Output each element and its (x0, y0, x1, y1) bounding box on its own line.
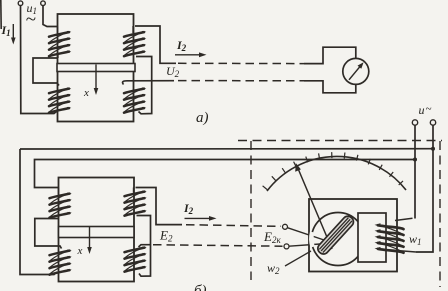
wire: I2 output from top-right coil (135, 26, 176, 63)
winding W-a-TL (49, 27, 71, 59)
core (transformer b) (59, 178, 135, 282)
armature bar (b) (59, 227, 135, 238)
wire: right series link (b) (137, 216, 151, 277)
svg-text:x: x (77, 245, 83, 257)
terminal E2k upper (283, 224, 288, 229)
terminal T2 (u1 right) (41, 1, 46, 6)
svg-text:а): а) (196, 110, 209, 126)
instrument box (309, 199, 397, 272)
winding W-b-TL (50, 188, 72, 219)
wire A: top rail (416, 125, 433, 252)
winding W-b-BL (50, 249, 72, 274)
wire: outer left loop (b) (20, 149, 57, 275)
millivoltmeter bracket bottom (304, 81, 356, 93)
armature bar (a) (57, 64, 135, 72)
dashed instrument box (238, 140, 442, 142)
wire E2k lower to coil (289, 244, 327, 247)
wire: right terminal down to top-left coil (43, 6, 58, 27)
wire: U2 output from bottom-right coil (123, 81, 174, 85)
arrow x (a) (95, 65, 97, 92)
wire: left terminal down and to bottom-left coil (21, 6, 57, 114)
wire: E2 output (136, 188, 183, 225)
dashed E2 line (186, 225, 281, 227)
magnet circle (312, 213, 365, 266)
svg-text:~: ~ (426, 103, 432, 115)
arrow I1 (12, 24, 14, 42)
arrow I2 (b) (185, 217, 213, 219)
wire E2k upper to coil (287, 228, 327, 241)
arrow x (b) (89, 227, 91, 251)
scan edge artifact (0, 0, 2, 29)
pointer w2 (285, 251, 311, 266)
dashed line I2 to meter (178, 62, 304, 64)
wire: right series link (a) (136, 57, 152, 114)
winding W-b-BR (125, 246, 147, 271)
svg-text:u: u (419, 103, 425, 117)
dashed line U2 to meter (178, 80, 304, 82)
winding W-a-BR (124, 87, 146, 112)
junction B (413, 158, 417, 162)
terminal T4 (u right) (430, 120, 435, 125)
winding w1 (375, 218, 417, 252)
svg-text:б): б) (194, 283, 207, 291)
wire B: second rail (414, 125, 416, 218)
svg-text:x: x (83, 87, 89, 99)
scale ticks (263, 186, 268, 190)
terminal E2k lower (284, 244, 289, 249)
meter mV (343, 58, 369, 84)
dashed E2x line (153, 245, 283, 247)
wire: left series link (b) (35, 219, 62, 249)
terminal T3 (u left) (412, 120, 417, 125)
pole core rect (358, 213, 386, 262)
meter needle (349, 65, 361, 80)
junction A (431, 147, 435, 151)
winding W-a-TR (124, 26, 146, 56)
millivoltmeter bracket top (304, 47, 356, 63)
wire: E2x output lower (139, 245, 151, 247)
gap in magnet circle at wire entry (311, 232, 312, 247)
wire: left series link (a) (33, 58, 59, 86)
svg-text:~: ~ (26, 9, 36, 30)
core (transformer a) (58, 14, 134, 122)
needle (298, 168, 332, 249)
winding W-a-BL (49, 87, 71, 112)
scale arc (267, 156, 406, 191)
winding W-b-TR (125, 188, 147, 216)
moving coil (hatched, rotated) (316, 214, 356, 256)
terminal T1 (u1 left) (18, 1, 23, 6)
arrow I2 (a) (175, 54, 202, 56)
